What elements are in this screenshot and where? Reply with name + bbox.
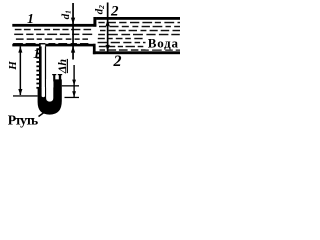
white patch behind Вода label [146,37,181,50]
arrowhead Δh at lower mercury level [72,91,76,97]
leader line from Ртуть to mercury [39,109,50,117]
extension line at left mercury level [13,95,38,96]
manometer right leg left wall above mercury [53,74,55,81]
svg-text:1: 1 [27,11,34,26]
svg-text:Ртуть: Ртуть [8,112,38,127]
arrowhead H top (points up at pipe bottom) [18,46,22,52]
svg-text:H: H [7,61,19,71]
svg-text:2: 2 [113,53,122,70]
pipe narrow section bottom wall right of manometer tap [45,44,95,47]
extension line at right leg mercury level [62,85,79,86]
dimension line d1 vertical [72,3,74,60]
arrowhead d2 top (points up at top wall inside) [106,20,110,27]
svg-text:Δh: Δh [55,59,69,75]
dimension line H vertical [20,46,22,95]
dimension line d2 vertical / section line 2-2 [107,3,109,52]
arrowhead d1 top (points down at top wall) [71,18,75,25]
pipe narrow section top wall [12,24,96,27]
arrowhead Δh at upper mercury level [72,80,76,86]
arrowhead d2 bottom (points down at bottom wall inside) [106,45,110,52]
dimension line Δh upper segment [73,65,74,86]
extension line at left leg mercury level (right side) [65,97,80,98]
pipe wide section top wall [96,17,180,20]
right leg rim ticks [52,74,56,75]
water hatching [13,22,180,51]
manometer left leg right wall [45,46,46,89]
pipe step bottom (contraction shoulder) [93,44,96,54]
manometer left leg scale bar [39,46,42,93]
arrowhead H bottom (points down at mercury level line) [18,89,22,95]
white channel of left leg interior into mercury [42,87,45,97]
svg-text:2: 2 [110,4,119,20]
mercury U-bend blob [38,79,62,114]
manometer right leg right wall above mercury [59,74,61,81]
pipe narrow section bottom wall left of manometer tap [12,44,40,47]
white arch notch between legs [46,79,53,102]
scale tick marks [36,48,39,89]
arrowhead d1 bottom (points up at bottom wall) [71,46,75,53]
pipe wide section bottom wall [93,51,180,54]
svg-text:Вода: Вода [148,36,179,51]
pipe step top (contraction shoulder) [93,17,96,27]
dimension line Δh lower segment [73,86,74,97]
